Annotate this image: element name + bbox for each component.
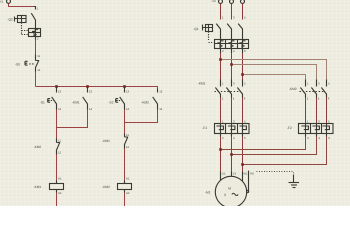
svg-text:3: 3 xyxy=(318,81,320,85)
wire S0 to bus xyxy=(35,72,37,87)
svg-text:1: 1 xyxy=(307,81,309,85)
wire phase1 down xyxy=(220,53,222,80)
svg-text:-S1: -S1 xyxy=(40,100,45,104)
node bus-S2 xyxy=(123,85,126,88)
wire branch2 join xyxy=(125,110,158,134)
svg-text:-Q2: -Q2 xyxy=(8,17,14,21)
svg-text:1: 1 xyxy=(37,7,39,11)
svg-text:12: 12 xyxy=(58,151,62,155)
svg-text:13: 13 xyxy=(126,90,130,94)
node bus-KM1 xyxy=(86,85,89,88)
svg-text:M: M xyxy=(228,187,231,191)
svg-text:U1: U1 xyxy=(222,171,226,175)
wire F1 to motor U1 xyxy=(220,137,222,172)
bus wire xyxy=(36,87,158,90)
svg-text:1: 1 xyxy=(307,119,309,123)
node W1 xyxy=(241,163,244,166)
wire F2 pole3 to W1 xyxy=(243,137,327,165)
contact KM2 aux (hold, NO) xyxy=(153,89,158,110)
svg-text:3: 3 xyxy=(233,119,235,123)
node V1 xyxy=(230,153,233,156)
node phase3 xyxy=(241,73,244,76)
ground xyxy=(289,175,300,188)
wire coil KM1 to N xyxy=(56,193,58,207)
svg-text:2: 2 xyxy=(37,37,39,41)
svg-text:-KM1: -KM1 xyxy=(198,81,206,85)
svg-text:3: 3 xyxy=(224,193,226,197)
svg-text:6: 6 xyxy=(328,136,330,140)
svg-text:13: 13 xyxy=(159,90,163,94)
wire coil KM2 to N xyxy=(124,193,126,207)
breaker Q2 (control circuit) xyxy=(15,7,41,40)
terminal -X1 (control supply) xyxy=(7,0,11,3)
svg-text:-X1: -X1 xyxy=(0,0,4,4)
svg-text:13: 13 xyxy=(58,90,62,94)
svg-text:5: 5 xyxy=(328,119,330,123)
svg-text:5: 5 xyxy=(328,81,330,85)
svg-text:-S0: -S0 xyxy=(15,62,20,66)
wire L2 feed xyxy=(231,4,233,20)
pushbutton S0 (stop, NC) xyxy=(25,55,39,72)
svg-text:-Q1: -Q1 xyxy=(193,27,199,31)
overload relay F1 xyxy=(215,124,250,137)
svg-text:12: 12 xyxy=(37,68,41,72)
PE wire xyxy=(247,171,249,193)
overload relay F2 xyxy=(299,124,334,137)
svg-text:11: 11 xyxy=(37,54,40,58)
wire F1 to motor W1 xyxy=(242,137,244,172)
node bus-S1 xyxy=(55,85,58,88)
svg-text:11: 11 xyxy=(58,139,61,143)
wire to coil KM2 xyxy=(124,149,126,181)
svg-text:12: 12 xyxy=(126,145,130,149)
svg-text:A1: A1 xyxy=(126,177,130,181)
svg-text:-M1: -M1 xyxy=(205,190,211,194)
svg-text:5: 5 xyxy=(244,119,246,123)
svg-text:2: 2 xyxy=(222,49,224,53)
pushbutton S2 (start KM2, NO) xyxy=(116,87,125,110)
wire branch1 join xyxy=(57,110,88,139)
wire to coil KM1 xyxy=(56,155,58,181)
svg-text:3: 3 xyxy=(233,81,235,85)
svg-text:11: 11 xyxy=(126,133,129,137)
wire phase2 to KM2 pole2 xyxy=(232,65,317,80)
svg-text:6: 6 xyxy=(244,49,246,53)
svg-text:V1: V1 xyxy=(233,171,237,175)
contactor KM2 (3-pole) xyxy=(300,80,327,98)
svg-text:5: 5 xyxy=(244,81,246,85)
svg-text:4: 4 xyxy=(318,136,320,140)
wire phase3 to KM2 pole1 xyxy=(243,75,306,80)
svg-text:6: 6 xyxy=(328,96,330,100)
svg-text:-KM2: -KM2 xyxy=(102,185,110,189)
svg-text:3: 3 xyxy=(233,16,235,20)
svg-text:4: 4 xyxy=(233,136,235,140)
svg-text:14: 14 xyxy=(159,107,163,111)
svg-text:-KM2: -KM2 xyxy=(289,87,297,91)
wire phase3 down xyxy=(242,53,244,80)
svg-text:-F1: -F1 xyxy=(202,126,207,130)
motor stubs xyxy=(221,172,243,182)
motor tilde xyxy=(232,193,238,195)
svg-text:2: 2 xyxy=(222,136,224,140)
svg-text:1: 1 xyxy=(222,81,224,85)
svg-text:PE: PE xyxy=(250,171,254,175)
contact KM2 interlock (NC) xyxy=(57,139,60,155)
svg-text:W1: W1 xyxy=(243,171,248,175)
wire F1 to motor V1 xyxy=(231,137,233,172)
svg-text:2: 2 xyxy=(222,96,224,100)
svg-text:5: 5 xyxy=(244,16,246,20)
svg-text:3: 3 xyxy=(318,119,320,123)
motor M1 xyxy=(215,176,246,207)
wire KM1 to F1 xyxy=(221,98,243,124)
contact KM1 interlock (NC) xyxy=(125,134,128,149)
svg-text:-X2: -X2 xyxy=(212,0,217,3)
wire F2 pole1 to U1 xyxy=(221,137,306,150)
svg-text:-KM1: -KM1 xyxy=(72,100,80,104)
svg-text:1: 1 xyxy=(222,119,224,123)
svg-text:2: 2 xyxy=(307,136,309,140)
coil KM2 xyxy=(118,181,132,193)
svg-text:6: 6 xyxy=(244,96,246,100)
node U1 xyxy=(219,148,222,151)
svg-text:2: 2 xyxy=(307,96,309,100)
svg-text:14: 14 xyxy=(89,107,93,111)
svg-text:-KM1: -KM1 xyxy=(34,185,42,189)
wire phase2 down xyxy=(231,53,233,80)
PE dotted link xyxy=(257,171,294,173)
wire L3 feed xyxy=(242,4,244,20)
svg-text:4: 4 xyxy=(318,96,320,100)
node phase1 xyxy=(219,58,222,61)
svg-text:4: 4 xyxy=(233,49,235,53)
node phase2 xyxy=(230,63,233,66)
wire phase1 to KM2 pole3 xyxy=(221,60,327,80)
svg-text:14: 14 xyxy=(126,107,130,111)
breaker Q1 (3-pole) xyxy=(203,24,243,43)
svg-text:6: 6 xyxy=(244,136,246,140)
contactor KM1 (3-pole) xyxy=(215,80,243,98)
pushbutton S1 (start KM1, NO) xyxy=(48,87,57,110)
svg-text:A2: A2 xyxy=(58,191,62,195)
svg-text:-S2: -S2 xyxy=(109,100,114,104)
terminals -X2 (L1 L2 L3) xyxy=(219,0,245,3)
svg-text:-KM2: -KM2 xyxy=(141,100,149,104)
svg-text:1: 1 xyxy=(222,16,224,20)
svg-text:-F2: -F2 xyxy=(287,126,292,130)
svg-text:-KM2: -KM2 xyxy=(34,145,42,149)
svg-text:14: 14 xyxy=(58,107,62,111)
wire F2 pole2 to V1 xyxy=(232,137,317,155)
contact KM1 aux (hold, NO) xyxy=(83,87,88,110)
svg-text:-KM1: -KM1 xyxy=(102,139,110,143)
wire terminal to Q2 xyxy=(9,3,34,6)
coil KM1 xyxy=(50,181,64,193)
svg-text:13: 13 xyxy=(89,90,93,94)
svg-text:A2: A2 xyxy=(126,191,130,195)
wire L1 feed xyxy=(220,4,222,20)
svg-text:4: 4 xyxy=(233,96,235,100)
svg-text:A1: A1 xyxy=(58,177,62,181)
wire KM2 to F2 xyxy=(306,98,327,124)
trip unit Q1 xyxy=(215,40,249,54)
wire Q2 to S0 xyxy=(35,40,37,55)
